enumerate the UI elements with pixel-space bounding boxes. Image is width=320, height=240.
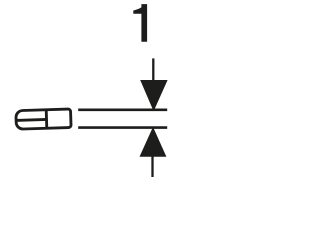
rivet mandrel mid-line [16, 118, 46, 122]
step number 1 [133, 4, 147, 42]
upper panel line [78, 109, 167, 112]
dimension arrow up (head) [140, 127, 167, 157]
rivet component [16, 109, 71, 129]
dimension arrow down (head) [140, 80, 167, 111]
dimension arrow down (shaft) [152, 58, 154, 81]
dimension arrow up (shaft) [151, 156, 153, 178]
rivet sleeve divider [45, 110, 48, 128]
rivet body outline [16, 109, 71, 129]
lower panel line [78, 126, 167, 129]
